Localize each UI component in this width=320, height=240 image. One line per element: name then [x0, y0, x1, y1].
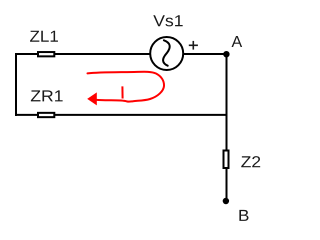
wire loop bottom — [15, 114, 228, 116]
wire left side — [15, 53, 17, 116]
red current loop annotation — [88, 72, 165, 102]
wire right side: node A down to node B — [226, 54, 228, 201]
wire top: left corner to node A — [15, 53, 227, 55]
impedance Z2 — [224, 151, 229, 169]
sine wave of Vs1 — [163, 40, 170, 65]
node A — [223, 51, 229, 57]
red loop arrowhead — [87, 92, 97, 105]
resistor ZR1 — [38, 113, 54, 117]
source Vs1 — [150, 37, 183, 70]
label Vs1 — [153, 15, 182, 26]
label Z2 — [241, 156, 260, 167]
node B — [223, 198, 229, 204]
label ZR1 — [31, 90, 63, 101]
resistor ZL1 — [38, 52, 54, 56]
red current label i — [121, 86, 123, 98]
label A — [232, 36, 243, 47]
plus sign of Vs1 — [189, 41, 198, 50]
label B — [239, 210, 248, 221]
label ZL1 — [30, 31, 58, 42]
